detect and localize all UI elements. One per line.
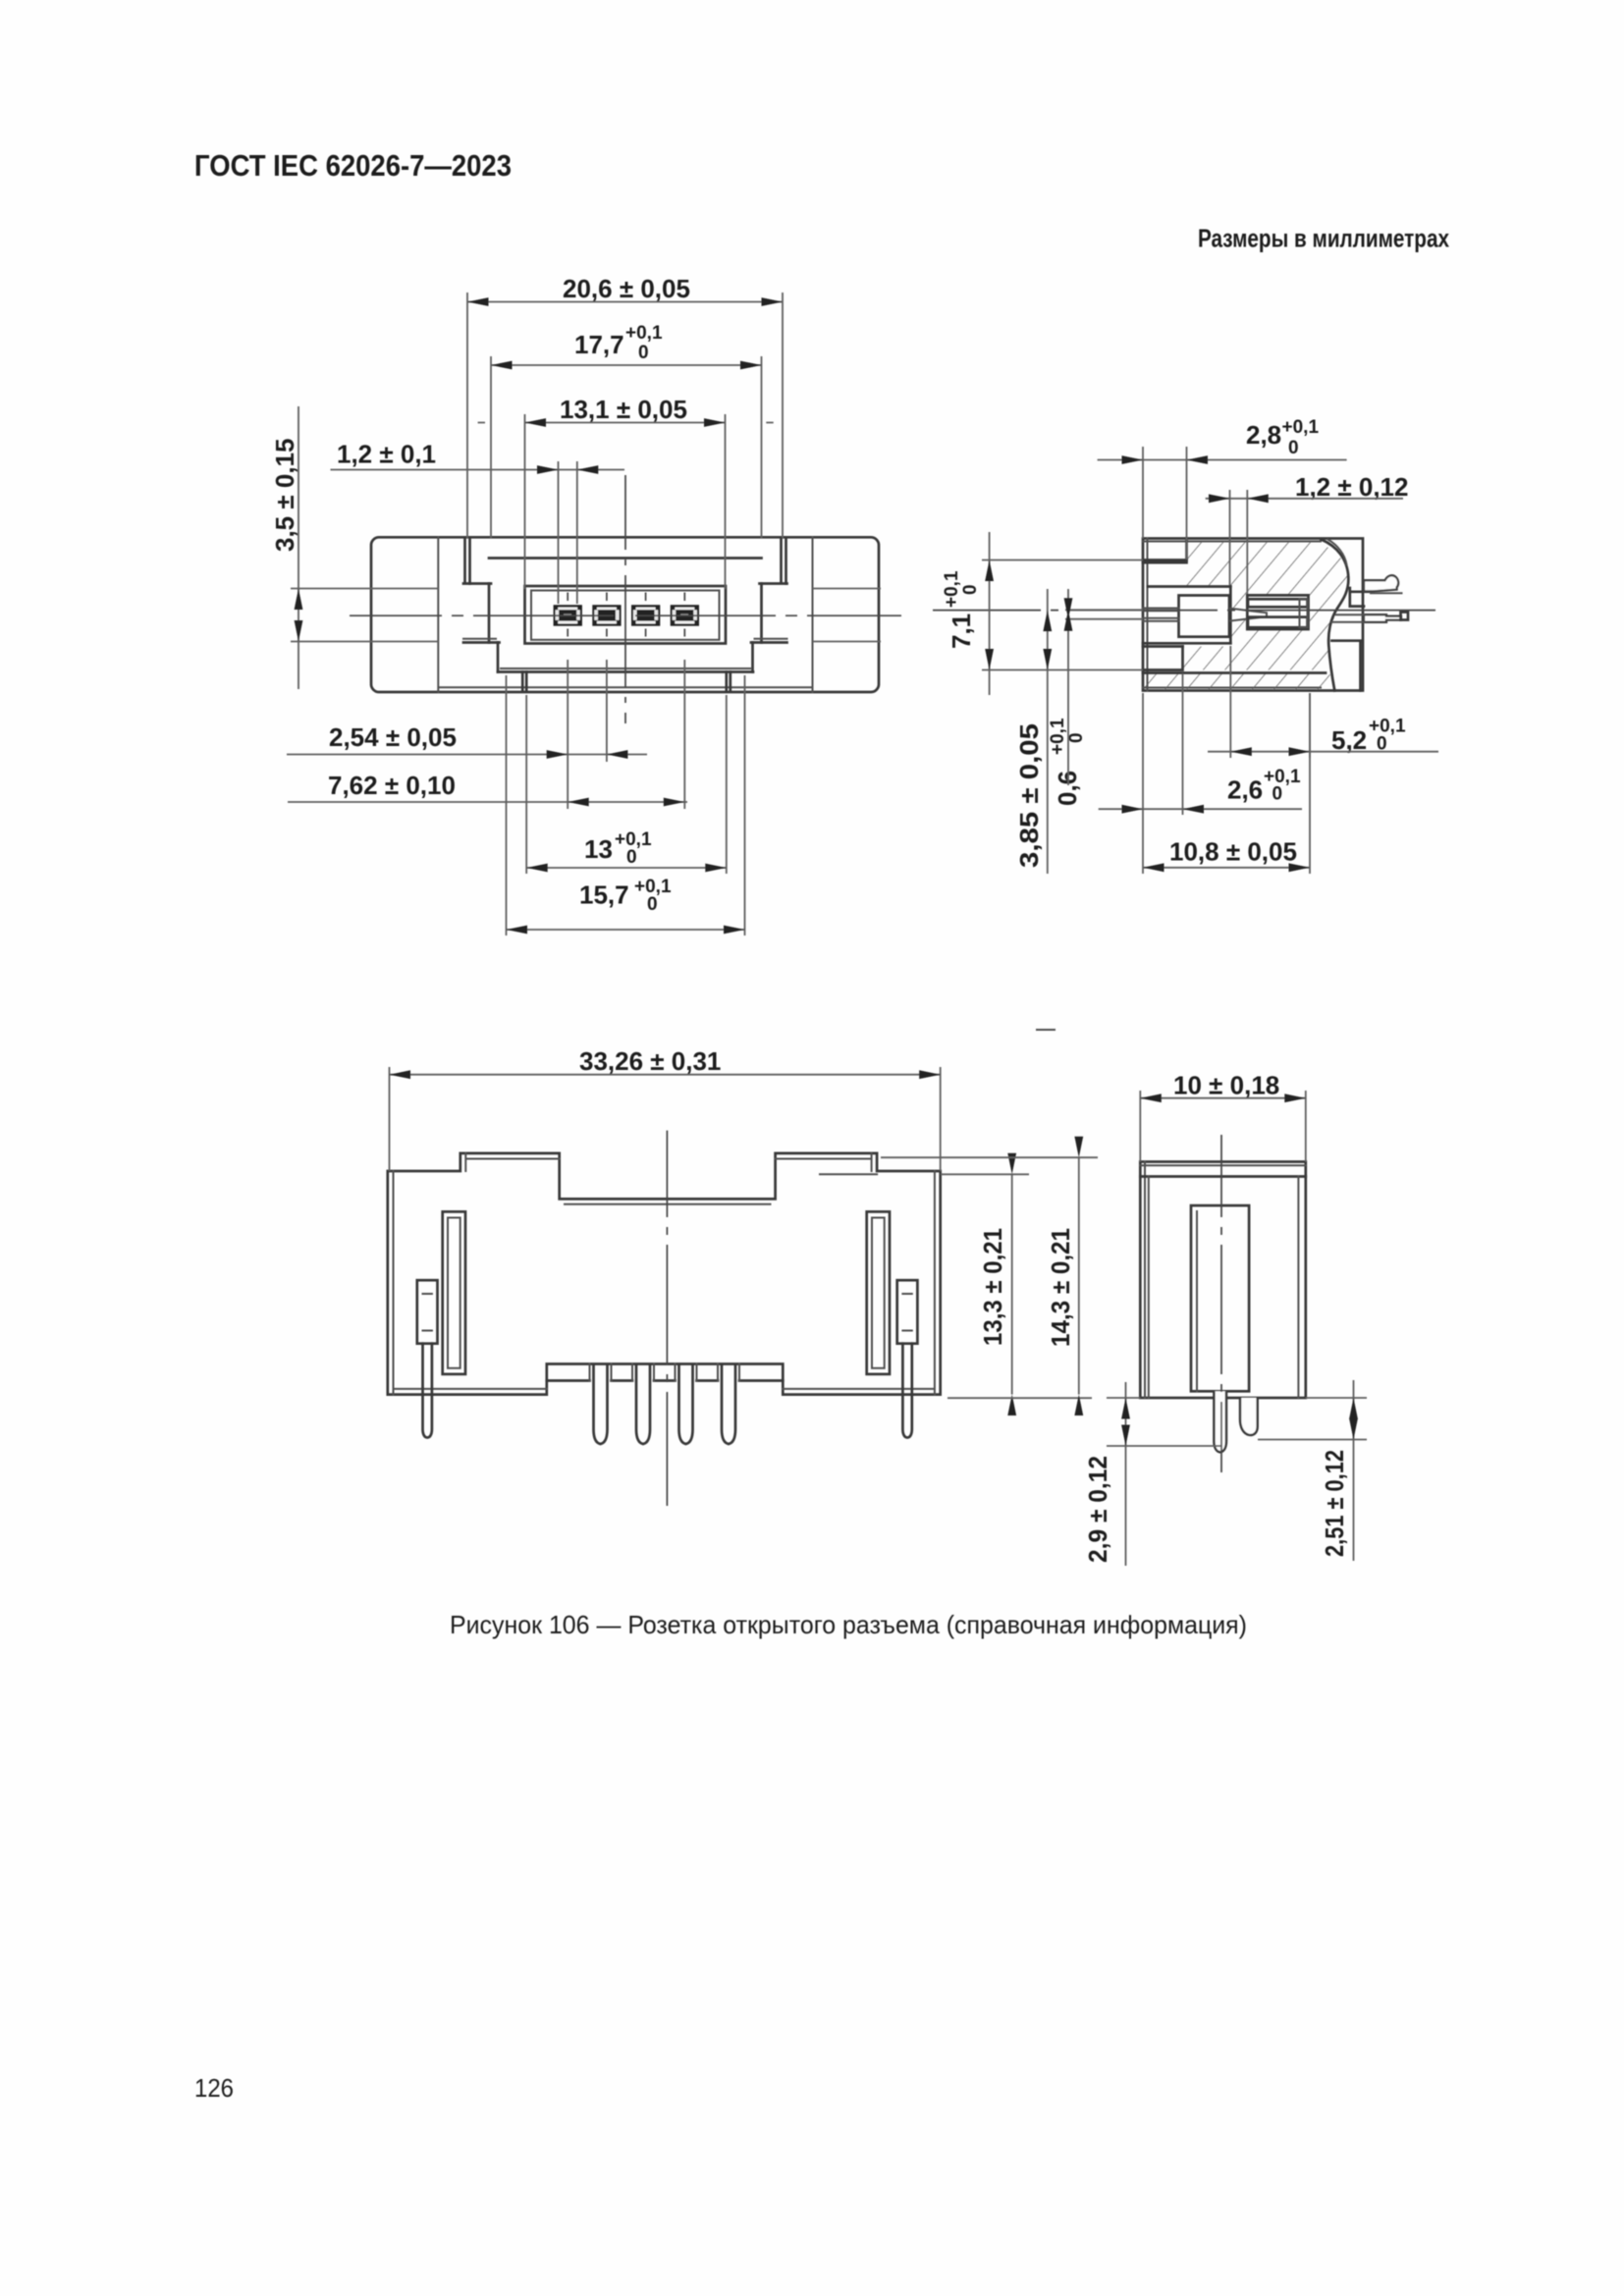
pin 4 [722, 1365, 735, 1444]
svg-text:+0,1: +0,1 [1369, 717, 1406, 737]
figure caption [450, 1610, 1247, 1639]
dimension 13,3 ± 0,21 [941, 1153, 1029, 1415]
svg-text:2,9 ± 0,12: 2,9 ± 0,12 [1083, 1456, 1112, 1563]
svg-text:+0,1: +0,1 [942, 570, 962, 608]
latch hook [1240, 1398, 1258, 1435]
socket opening [525, 586, 727, 644]
vertical centreline [624, 475, 626, 723]
svg-text:0: 0 [647, 894, 658, 915]
pin step [1350, 588, 1371, 607]
dimension 2,6 +0,1/0 [1099, 673, 1302, 874]
pin 1 [594, 1365, 608, 1444]
contact centre marks [568, 593, 684, 637]
units note [1198, 224, 1449, 253]
blade strips [1143, 609, 1179, 621]
centre pin [1214, 1391, 1226, 1452]
page number [194, 2073, 234, 2103]
svg-text:2,8: 2,8 [1246, 420, 1281, 450]
svg-text:5,2: 5,2 [1331, 725, 1367, 755]
section centreline [933, 610, 1435, 612]
hatch top wall left [1187, 542, 1231, 587]
vertical centreline [666, 1131, 668, 1506]
svg-text:3,5 ± 0,15: 3,5 ± 0,15 [270, 439, 299, 552]
cavity floor [1143, 643, 1230, 646]
pin 2 [636, 1365, 650, 1444]
dimension 3,85 ± 0,05 [1014, 589, 1052, 874]
svg-text:0: 0 [1272, 784, 1283, 805]
svg-text:13,3 ± 0,21: 13,3 ± 0,21 [978, 1228, 1007, 1346]
dimension 7,62 ± 0,10 [288, 660, 687, 809]
svg-text:3,85 ± 0,05: 3,85 ± 0,05 [1014, 723, 1044, 868]
hatch core upper [1230, 542, 1347, 595]
dimension 7,1 +0,1/0 [942, 532, 1143, 695]
svg-text:0: 0 [1066, 732, 1087, 743]
svg-text:13,1 ± 0,05: 13,1 ± 0,05 [560, 395, 687, 424]
dimension 17,7 +0,1/0 [491, 323, 762, 538]
hatch right of chamber [1310, 595, 1344, 629]
page header [194, 148, 512, 183]
contact chamber [1247, 595, 1308, 629]
svg-text:1,2 ± 0,12: 1,2 ± 0,12 [1295, 472, 1408, 502]
side elevation outline [1140, 1162, 1306, 1399]
lower pin [1331, 613, 1408, 622]
svg-text:2,54 ± 0,05: 2,54 ± 0,05 [329, 722, 457, 752]
svg-text:10 ± 0,18: 10 ± 0,18 [1173, 1071, 1279, 1100]
contact 3 [631, 605, 660, 626]
dimension 3,5 ± 0,15 [270, 406, 881, 689]
upper pin [1364, 575, 1402, 593]
pin rail [547, 1364, 784, 1381]
contact fork [1248, 599, 1308, 627]
svg-text:2,51 ± 0,12: 2,51 ± 0,12 [1320, 1450, 1349, 1557]
dimension 1,2 ± 0,12 [1206, 472, 1409, 594]
svg-text:0,6: 0,6 [1053, 771, 1082, 806]
svg-text:14,3 ± 0,21: 14,3 ± 0,21 [1046, 1228, 1075, 1347]
contact 1 [554, 605, 582, 626]
svg-text:0: 0 [638, 343, 649, 363]
hood outline [463, 538, 787, 692]
horizontal centreline [350, 614, 901, 616]
right latch slot [867, 1211, 890, 1374]
housing section outline [1143, 539, 1363, 691]
stray mark [1037, 1029, 1055, 1031]
flange ledge [1331, 641, 1362, 691]
svg-text:ГОСТ IEC 62026-7—2023: ГОСТ IEC 62026-7—2023 [194, 148, 512, 183]
svg-text:0: 0 [626, 847, 637, 868]
dimension 2,8 +0,1/0 [1098, 417, 1347, 560]
blade taper [1230, 609, 1267, 621]
svg-text:Размеры в миллиметрах: Размеры в миллиметрах [1198, 224, 1449, 253]
dimension 10 ± 0,18 [1140, 1071, 1306, 1162]
svg-text:20,6 ± 0,05: 20,6 ± 0,05 [563, 274, 690, 303]
dimension 0,6 +0,1/0 [1048, 589, 1143, 806]
front elevation outline [388, 1153, 941, 1395]
svg-text:33,26 ± 0,31: 33,26 ± 0,31 [579, 1046, 721, 1076]
hatch cavity back wall [1230, 595, 1247, 629]
left latch slot [443, 1211, 465, 1374]
connector body (plan view) [371, 537, 879, 692]
svg-text:7,62 ± 0,10: 7,62 ± 0,10 [328, 771, 456, 800]
svg-text:17,7: 17,7 [574, 330, 624, 359]
svg-text:0: 0 [1288, 438, 1299, 458]
dimension 13 +0,1/0 [526, 695, 727, 874]
svg-text:+0,1: +0,1 [1282, 417, 1320, 438]
svg-text:+0,1: +0,1 [625, 323, 663, 344]
dimension 15,7 +0,1/0 [507, 675, 745, 935]
svg-text:1,2 ± 0,1: 1,2 ± 0,1 [337, 440, 436, 469]
dimension 13,1 ± 0,05 [478, 395, 774, 589]
svg-text:10,8 ± 0,05: 10,8 ± 0,05 [1169, 837, 1297, 867]
top wall lower edge [1148, 585, 1230, 588]
contact box [1179, 596, 1230, 637]
bottom slot [1143, 647, 1326, 673]
svg-text:15,7: 15,7 [579, 881, 629, 910]
dimension 2,51 ± 0,12 [1258, 1380, 1367, 1561]
right mounting peg [897, 1280, 918, 1437]
latch window [1191, 1205, 1249, 1391]
left mounting peg [417, 1280, 438, 1437]
svg-text:13: 13 [584, 834, 613, 864]
svg-text:+0,1: +0,1 [1048, 718, 1068, 755]
svg-text:126: 126 [194, 2073, 234, 2103]
hatch below cavity [1183, 629, 1332, 670]
contact 4 [671, 605, 699, 626]
contact 2 [592, 605, 621, 626]
svg-text:Рисунок 106 — Розетка открытог: Рисунок 106 — Розетка открытого разъема … [450, 1610, 1247, 1639]
dimension 5,2 +0,1/0 [1208, 646, 1438, 758]
dimension 20,6 ± 0,05 [467, 274, 783, 538]
pin 3 [679, 1365, 693, 1444]
svg-text:2,6: 2,6 [1227, 775, 1263, 805]
moulding curve [1322, 540, 1349, 691]
dimension 2,9 ± 0,12 [1083, 1382, 1222, 1566]
dimension 10,8 ± 0,05 [1143, 693, 1310, 874]
dimension 2,54 ± 0,05 [287, 660, 647, 809]
dimension 33,26 ± 0,31 [390, 1046, 941, 1171]
cavity back wall [1229, 587, 1232, 644]
top slot [1143, 539, 1187, 563]
svg-text:7,1: 7,1 [947, 614, 976, 649]
hatch bottom wall [1145, 673, 1332, 690]
dimension 14,3 ± 0,21 [881, 1137, 1098, 1415]
dimension 1,2 ± 0,1 [331, 440, 625, 605]
vertical centreline [1220, 1135, 1222, 1472]
svg-text:0: 0 [960, 584, 981, 595]
